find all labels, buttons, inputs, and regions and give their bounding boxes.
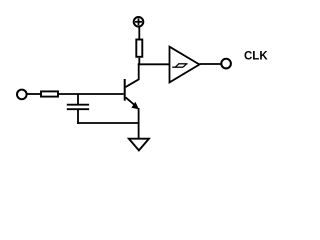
transistor Q1 base bar [124, 79, 126, 101]
U1 hysteresis symbol [172, 64, 187, 67]
transistor Q1 emitter arrowhead [131, 102, 139, 110]
wire junction up to R2 [138, 58, 140, 65]
wire capacitor bottom stub [77, 109, 79, 124]
capacitor C1 bottom plate [67, 108, 89, 110]
wire capacitor to emitter rail [77, 122, 139, 124]
resistor R1 [41, 91, 58, 96]
wire buffer output [199, 63, 221, 65]
wire R1 to base [58, 93, 124, 95]
output terminal circle [221, 59, 231, 69]
node collector junction wire to buffer [138, 63, 170, 65]
op-amp U1 schmitt buffer triangle [170, 47, 200, 83]
wire emitter down to ground [138, 108, 140, 139]
power supply symbol circle [134, 17, 144, 27]
capacitor C1 top plate [67, 104, 89, 106]
transistor Q1 emitter diagonal [126, 97, 137, 106]
ground symbol triangle [129, 139, 149, 151]
wire capacitor top stub [77, 94, 79, 105]
resistor R2 [136, 40, 142, 57]
transistor Q1 collector diagonal [126, 79, 139, 87]
wire input to R1 [27, 93, 42, 95]
wire collector up to junction [138, 63, 140, 80]
svg-text:CLK: CLK [244, 51, 268, 63]
input terminal circle [17, 90, 27, 100]
wire R2 to supply [138, 27, 140, 40]
power supply plus sign [135, 18, 142, 25]
